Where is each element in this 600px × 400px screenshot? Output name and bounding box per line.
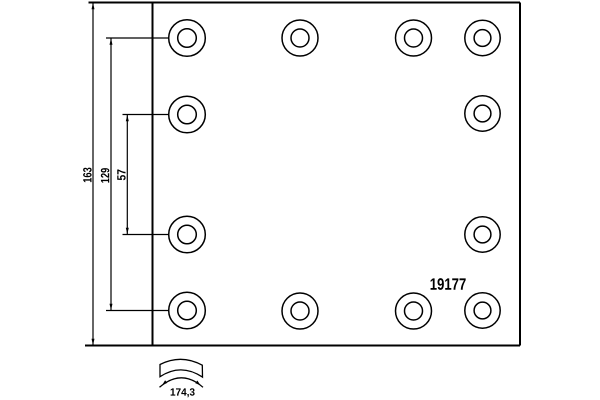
arc dimension line 174,3 xyxy=(160,378,204,388)
rivet hole row1 col1 outer xyxy=(169,20,206,57)
rivet hole row1 col1 inner xyxy=(178,29,197,48)
label 57 xyxy=(117,170,125,181)
rivet hole row2 col1 inner xyxy=(178,105,197,124)
arrow 163 bottom xyxy=(92,339,95,345)
rivet hole row3 col1 outer xyxy=(169,216,206,253)
rivet hole row3 col4 outer xyxy=(465,217,500,252)
extension line row3 xyxy=(123,234,169,236)
rivet hole row4 col3 inner xyxy=(405,302,423,320)
rivet hole row4 col2 inner xyxy=(291,302,309,320)
rivet hole row4 col3 outer xyxy=(396,293,432,329)
rivet hole row4 col4 outer xyxy=(465,293,500,328)
dimension line 129 xyxy=(110,38,112,311)
part number 19177 xyxy=(431,278,466,290)
label 174,3 xyxy=(171,388,195,397)
plate bottom edge xyxy=(85,345,520,347)
plate left edge xyxy=(152,3,154,346)
rivet hole row3 col1 inner xyxy=(178,225,197,244)
extension line row4 xyxy=(106,310,169,312)
rivet hole row2 col1 outer xyxy=(169,96,206,133)
arrow 129 bottom xyxy=(110,304,113,310)
arrow 129 top xyxy=(110,39,113,45)
arrow 57 top xyxy=(126,115,129,121)
dimension line 57 xyxy=(126,115,128,235)
lining cross-section band xyxy=(160,359,203,377)
rivet hole row4 col4 inner xyxy=(474,302,491,319)
rivet hole row1 col2 outer xyxy=(282,20,318,56)
rivet hole row1 col3 outer xyxy=(396,20,432,56)
rivet hole row2 col4 inner xyxy=(474,105,491,122)
plate top edge xyxy=(89,2,521,4)
rivet hole row4 col1 inner xyxy=(178,301,197,320)
dimension line 163 xyxy=(92,3,94,346)
arrow 57 bottom xyxy=(126,228,129,234)
plate right edge xyxy=(519,3,521,346)
extension line row2 xyxy=(123,114,169,116)
label 129 xyxy=(101,168,110,183)
rivet hole row3 col4 inner xyxy=(474,226,491,243)
arc dimension right arrow xyxy=(195,381,200,386)
rivet hole row4 col1 outer xyxy=(169,292,206,329)
rivet hole row4 col2 outer xyxy=(282,293,318,329)
rivet hole row1 col2 inner xyxy=(291,29,309,47)
label 163 xyxy=(83,168,92,183)
rivet hole row2 col4 outer xyxy=(465,96,500,131)
arc dimension left arrow xyxy=(162,380,167,385)
arrow 163 top xyxy=(92,3,95,9)
rivet hole row1 col3 inner xyxy=(405,29,423,47)
rivet hole row1 col4 outer xyxy=(465,20,500,55)
extension line row1 xyxy=(106,37,169,39)
rivet hole row1 col4 inner xyxy=(474,30,491,47)
